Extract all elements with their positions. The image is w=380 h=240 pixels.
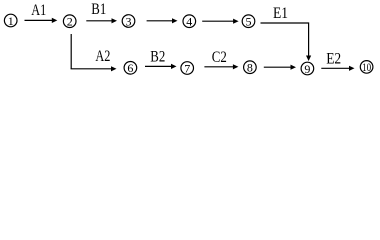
svg-text:6: 6 [127, 61, 133, 75]
svg-text:1: 1 [8, 14, 14, 28]
svg-text:2: 2 [67, 15, 73, 29]
wire E1 elbow from node 5 to node 9 [261, 23, 312, 61]
node 6 [124, 61, 137, 75]
node 7 [181, 61, 194, 75]
svg-text:7: 7 [184, 61, 190, 75]
svg-text:8: 8 [247, 61, 253, 75]
arrow A1 from node 1 to node 2 [25, 18, 58, 23]
arrow C2 from node 7 to node 8 [204, 64, 238, 69]
arrow from node 4 to node 5 [202, 19, 238, 24]
svg-text:E2: E2 [326, 51, 341, 68]
node 4 [183, 15, 196, 29]
node 10 [360, 60, 373, 74]
svg-text:10: 10 [362, 60, 371, 74]
arrow E2 from node 9 to node 10 [321, 66, 354, 71]
svg-text:B2: B2 [150, 49, 165, 66]
svg-text:4: 4 [186, 15, 192, 29]
node 9 [301, 62, 314, 76]
node 3 [122, 14, 135, 28]
svg-text:A1: A1 [31, 2, 46, 19]
svg-text:5: 5 [246, 15, 252, 29]
svg-text:A2: A2 [95, 48, 110, 65]
svg-text:C2: C2 [212, 49, 227, 66]
svg-text:B1: B1 [91, 1, 106, 18]
node 1 [4, 14, 17, 28]
node 8 [244, 61, 257, 75]
arrow A2 from node 2 drop to node 6 [71, 66, 117, 71]
arrow from node 8 to node 9 [264, 65, 296, 70]
node 2 [63, 15, 76, 29]
svg-text:9: 9 [304, 62, 310, 76]
svg-text:E1: E1 [273, 5, 288, 22]
arrow from node 3 to node 4 [147, 18, 178, 23]
arrow B2 from node 6 to node 7 [145, 64, 177, 69]
svg-text:3: 3 [126, 14, 132, 28]
node 5 [242, 15, 255, 29]
wire drop from node 2 [70, 34, 72, 69]
arrow B1 from node 2 to node 3 [86, 18, 117, 23]
